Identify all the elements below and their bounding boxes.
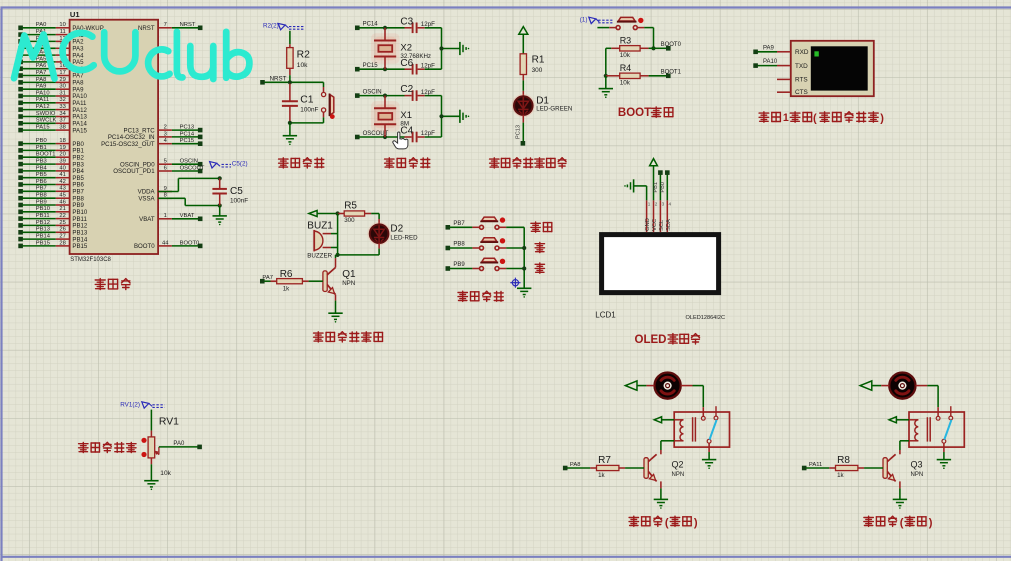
svg-text:22: 22	[59, 213, 65, 219]
svg-text:PB0: PB0	[660, 182, 666, 193]
wire D1 to PC13 / net PC13	[516, 115, 526, 146]
svg-text:R2: R2	[297, 50, 311, 61]
svg-text:PA10: PA10	[763, 59, 778, 65]
pin GND (OLED)	[645, 200, 651, 232]
svg-text:PB3: PB3	[36, 159, 47, 165]
svg-text:PB15: PB15	[36, 240, 50, 246]
svg-text:LED-RED: LED-RED	[390, 234, 418, 241]
svg-text:NRST: NRST	[270, 75, 287, 82]
svg-text:OSCIN: OSCIN	[180, 159, 198, 165]
pin 4 / PC15-OSC32_OUT (right)	[101, 138, 202, 148]
svg-text:300: 300	[344, 217, 355, 224]
pin 39 / net PB3 (left)	[18, 159, 84, 169]
svg-text:BOOT: BOOT	[618, 107, 651, 119]
wire R2 top	[289, 31, 291, 45]
resistor R5	[338, 201, 372, 224]
svg-text:1: 1	[783, 112, 789, 124]
svg-text:100nF: 100nF	[300, 107, 318, 114]
svg-text:R7: R7	[598, 455, 611, 466]
svg-text:X1: X1	[400, 110, 412, 121]
svg-text:RV1: RV1	[159, 417, 179, 428]
svg-text:OSCOUT_PD1: OSCOUT_PD1	[113, 168, 155, 175]
svg-text:31: 31	[59, 90, 65, 96]
label STM32F103C8	[70, 257, 111, 263]
svg-text:R5: R5	[344, 201, 357, 212]
label OLED12864I2C	[686, 315, 726, 321]
pin 40 / net PB4 (left)	[18, 165, 84, 175]
relay purifier	[909, 406, 964, 447]
svg-text:OSCIN: OSCIN	[363, 89, 382, 95]
svg-text:PB7: PB7	[36, 186, 47, 192]
wire RV1 wiper / net PA0	[159, 441, 202, 449]
svg-text:PC15-OSC32_OUT: PC15-OSC32_OUT	[101, 141, 155, 148]
wire Q3 emitter	[899, 481, 901, 499]
svg-text:RXD: RXD	[795, 49, 809, 56]
wire relay common to ground	[943, 443, 945, 459]
callout C5(2)	[210, 160, 248, 168]
svg-text:PC15: PC15	[180, 138, 195, 144]
svg-text:Q3: Q3	[911, 459, 923, 469]
label main chip (Chinese)	[95, 279, 130, 290]
buzzer BUZ1	[307, 220, 337, 259]
pin 16 / net PA6 (left)	[18, 63, 84, 73]
svg-text:C1: C1	[300, 94, 314, 105]
svg-text:C5: C5	[230, 186, 243, 197]
label plus (Chinese)	[535, 242, 544, 252]
label OLED display (Chinese)	[635, 334, 700, 346]
pin SDA (OLED)	[666, 200, 672, 232]
node C5 bottom junction	[218, 203, 222, 207]
pin 14 / net PA4 (left)	[18, 50, 84, 60]
wire OSCIN row	[359, 94, 404, 98]
svg-text:): )	[694, 517, 698, 529]
svg-text:PB12: PB12	[36, 220, 50, 226]
svg-text:34: 34	[59, 111, 66, 117]
svg-text:D2: D2	[390, 224, 403, 235]
svg-text:29: 29	[59, 77, 65, 83]
svg-text:18: 18	[59, 138, 65, 144]
pin 13 / net PA3 (left)	[18, 43, 84, 53]
svg-text:OLED: OLED	[635, 334, 667, 346]
svg-text:41: 41	[59, 172, 65, 178]
svg-text:4: 4	[669, 201, 672, 206]
pin 46 / net PB9 (left)	[18, 199, 84, 209]
pin 15 / net PA5 (left)	[18, 56, 84, 66]
wire C1 bottom	[288, 121, 324, 125]
terminal OSCIN	[355, 89, 382, 98]
push button (PB7)	[450, 217, 525, 229]
svg-text:OLED12864I2C: OLED12864I2C	[686, 315, 726, 321]
svg-text:NRST: NRST	[180, 22, 196, 28]
transistor Q1	[323, 268, 356, 295]
resistor R4	[606, 63, 649, 86]
pin 18 / net PB0 (left)	[18, 138, 84, 148]
LED D1	[512, 94, 573, 117]
pin 5 / OSCIN_PD0 (right)	[120, 159, 202, 169]
ground (RV1)	[144, 464, 158, 490]
svg-text:21: 21	[59, 206, 65, 212]
callout R2(2)	[263, 23, 304, 30]
IC U1 STM32F103C8 (MCU)	[70, 20, 159, 254]
ground (crystal)	[460, 42, 469, 55]
pin 25 / net PB12 (left)	[18, 220, 88, 230]
svg-text:1: 1	[648, 201, 651, 206]
pin 8 / VSSA (right)	[138, 193, 172, 203]
svg-text:PB0: PB0	[36, 138, 47, 144]
terminal PA11 / resistor R	[802, 455, 883, 479]
terminal PB1 (SCL)	[653, 170, 662, 200]
label U1	[70, 10, 80, 19]
svg-text:VBAT: VBAT	[180, 213, 195, 219]
wire right rail	[439, 96, 460, 137]
wire Q3 collector	[899, 450, 901, 454]
svg-text:3: 3	[164, 131, 167, 137]
pin CTS stub	[777, 91, 791, 93]
potentiometer RV1	[141, 417, 179, 477]
svg-text:R4: R4	[620, 63, 632, 73]
svg-text:PB10: PB10	[36, 206, 50, 212]
terminal PC14	[355, 22, 378, 31]
svg-text:1k: 1k	[837, 472, 844, 479]
virtual terminal (serial window)	[791, 41, 874, 96]
ground (OLED)	[624, 179, 633, 192]
svg-text:RV1(2): RV1(2)	[120, 402, 140, 409]
svg-text:10: 10	[59, 22, 65, 28]
svg-text:SWCLK: SWCLK	[36, 118, 57, 124]
wire Q2 collector	[660, 450, 662, 454]
ground (relay)	[937, 460, 951, 469]
wire coil to collector	[661, 441, 674, 450]
pin 1 / VBAT (right)	[139, 213, 202, 223]
svg-text:PB15: PB15	[72, 243, 88, 250]
svg-text:LED-GREEN: LED-GREEN	[536, 105, 572, 112]
svg-text:TXD: TXD	[795, 63, 808, 70]
svg-text:12pF: 12pF	[421, 130, 435, 137]
svg-text:PA11: PA11	[36, 97, 49, 103]
svg-text:10k: 10k	[620, 52, 631, 59]
wire R1 to D1	[522, 75, 524, 97]
motor (load)	[655, 373, 681, 399]
svg-text:42: 42	[59, 179, 65, 185]
wire GND to ground	[634, 186, 647, 200]
pin 31 / net PA10 (left)	[18, 90, 87, 100]
label crystal circuit (Chinese)	[385, 158, 430, 168]
svg-text:3: 3	[662, 201, 665, 206]
ground (reset)	[283, 123, 297, 145]
callout RV1(2)	[120, 402, 164, 409]
terminal PA7 / resistor R6	[260, 269, 323, 292]
LED D2	[368, 222, 419, 245]
svg-text:PC14: PC14	[363, 22, 379, 28]
wire D2 bottom	[336, 243, 380, 257]
svg-text:PB9: PB9	[36, 199, 47, 205]
label reset circuit (Chinese)	[279, 158, 324, 168]
svg-text:PA15: PA15	[36, 125, 50, 131]
terminal PC15	[355, 63, 378, 72]
watermark MCUclub	[14, 32, 249, 79]
svg-text:PB13: PB13	[36, 227, 50, 233]
wire BOOT1	[649, 69, 682, 78]
svg-text:LCD1: LCD1	[595, 311, 616, 320]
svg-text:BUZ1: BUZ1	[307, 220, 333, 231]
svg-text:C5(2): C5(2)	[232, 160, 248, 167]
wire right rail	[439, 28, 460, 69]
label program running indicator (Chinese)	[490, 158, 566, 168]
pin 7 / NRST (right)	[138, 22, 202, 32]
svg-text:300: 300	[532, 67, 543, 74]
svg-text:7: 7	[164, 22, 167, 28]
svg-text:X2: X2	[400, 42, 412, 53]
capacitor C5	[212, 178, 248, 205]
svg-text:BOOT1: BOOT1	[661, 69, 682, 75]
svg-text:20: 20	[59, 152, 65, 158]
wire relay common to ground	[708, 443, 710, 459]
pin 20 / net BOOT1 (left)	[18, 152, 84, 162]
svg-text:PA0: PA0	[36, 22, 47, 28]
svg-text:PA12: PA12	[36, 104, 50, 110]
power +V (indicator)	[519, 27, 528, 54]
svg-text:39: 39	[59, 159, 65, 165]
svg-text:VBAT: VBAT	[139, 216, 155, 223]
pin 17 / net PA7 (left)	[18, 70, 84, 80]
svg-text:SWDIO: SWDIO	[36, 111, 56, 117]
capacitor C2	[400, 84, 441, 101]
ground (Q1)	[328, 313, 342, 322]
push button (PB9)	[450, 258, 525, 270]
svg-text:44: 44	[162, 240, 169, 246]
svg-text:19: 19	[59, 145, 65, 151]
svg-text:BUZZER: BUZZER	[307, 252, 332, 259]
label LCD1	[595, 311, 616, 320]
svg-text:6: 6	[164, 165, 167, 171]
pin 30 / net PA9 (left)	[18, 84, 84, 94]
wire PC15 row	[359, 67, 404, 71]
pin 3 / PC14-OSC32_IN (right)	[108, 131, 203, 141]
terminal OSCOUT	[355, 131, 389, 140]
svg-text:PA9: PA9	[763, 45, 775, 51]
terminal PB0 (SDA)	[660, 170, 670, 200]
wire button rail	[522, 227, 526, 288]
relay fan	[674, 406, 729, 447]
wire PC14 row	[359, 26, 404, 30]
svg-text:R3: R3	[620, 36, 632, 46]
svg-text:PA11: PA11	[809, 462, 822, 468]
svg-text:2: 2	[655, 201, 658, 206]
label BOOT circuit	[618, 107, 673, 119]
transistor Q2	[644, 454, 684, 481]
terminal NRST	[260, 75, 286, 84]
pin 2 / PC13_RTC (right)	[124, 125, 203, 135]
power +V (motor)	[625, 381, 654, 390]
svg-text:PB4: PB4	[36, 165, 48, 171]
callout (1)	[580, 17, 613, 24]
push button (BOOT)	[597, 17, 653, 29]
pin 19 / net PB1 (left)	[18, 145, 84, 155]
svg-text:(: (	[900, 517, 904, 529]
label natural gas adjust (Chinese)	[79, 442, 136, 452]
svg-text:40: 40	[59, 165, 65, 171]
svg-text:25: 25	[59, 220, 65, 226]
wire Q2 emitter	[660, 481, 662, 499]
pin 28 / net PB15 (left)	[18, 240, 88, 250]
ground (Q3)	[893, 499, 907, 508]
svg-text:(: (	[813, 112, 817, 124]
svg-text:PB9: PB9	[453, 262, 465, 268]
svg-text:SDA: SDA	[666, 219, 672, 231]
resistor R1	[520, 54, 545, 75]
svg-text:11: 11	[60, 29, 66, 35]
svg-text:12pF: 12pF	[421, 62, 435, 69]
svg-text:PA6: PA6	[36, 63, 47, 69]
resistor R3	[611, 36, 653, 59]
svg-text:(: (	[665, 517, 669, 529]
pin 32 / net PA11 (left)	[18, 97, 87, 107]
svg-text:2: 2	[164, 125, 167, 131]
svg-text:R6: R6	[280, 269, 293, 280]
wire BOOT0 node	[651, 28, 681, 51]
svg-text:PB8: PB8	[36, 193, 47, 199]
svg-text:17: 17	[59, 70, 65, 76]
svg-text:NRST: NRST	[138, 25, 155, 32]
pin RXD / net PA9	[753, 45, 791, 54]
svg-text:1: 1	[164, 213, 167, 219]
svg-text:30: 30	[59, 84, 65, 90]
capacitor C3	[400, 16, 441, 33]
svg-text:PC15: PC15	[363, 63, 379, 69]
terminal PB9	[446, 262, 466, 271]
svg-text:C3: C3	[400, 16, 413, 27]
pin 29 / net PA8 (left)	[18, 77, 84, 87]
svg-text:PB6: PB6	[36, 179, 47, 185]
label minus (Chinese)	[535, 263, 544, 273]
svg-text:R1: R1	[532, 54, 545, 65]
svg-text:PB7: PB7	[453, 221, 465, 227]
wire NRST node	[265, 75, 324, 84]
label independent keys (Chinese)	[458, 291, 503, 301]
power +V (motor)	[860, 381, 889, 390]
pin 34 / net SWDIO (left)	[18, 111, 87, 121]
svg-text:Q2: Q2	[672, 459, 684, 469]
svg-text:Q1: Q1	[342, 269, 356, 280]
capacitor C4	[400, 126, 441, 143]
svg-text:PB14: PB14	[36, 234, 51, 240]
svg-text:38: 38	[59, 125, 65, 131]
svg-text:12pF: 12pF	[421, 89, 435, 96]
label relay (Chinese)	[629, 516, 698, 529]
wire R3-R4 left rail	[604, 48, 612, 78]
label set (Chinese)	[531, 222, 552, 232]
ground (Q2)	[654, 499, 668, 508]
svg-text:OSCOUT: OSCOUT	[180, 165, 205, 171]
svg-text:BOOT0: BOOT0	[180, 240, 200, 246]
pin 33 / net PA12 (left)	[18, 104, 87, 114]
wire RV1 top	[150, 410, 152, 431]
pin 45 / net PB8 (left)	[18, 193, 84, 203]
svg-text:PB5: PB5	[36, 172, 47, 178]
wire VDDA to C5	[158, 178, 220, 191]
svg-text:SCL: SCL	[659, 219, 665, 231]
pin SCL (OLED)	[659, 200, 665, 232]
pin 12 / net PA2 (left)	[18, 36, 84, 46]
svg-text:1k: 1k	[283, 285, 290, 292]
svg-text:PC13: PC13	[516, 125, 522, 139]
mouse cursor (hand)	[393, 132, 408, 149]
svg-text:C2: C2	[400, 84, 413, 95]
wire OSCOUT row	[359, 135, 404, 139]
pin 41 / net PB5 (left)	[18, 172, 84, 182]
svg-text:R2(2): R2(2)	[263, 23, 279, 30]
pin 26 / net PB13 (left)	[18, 227, 88, 237]
power +V (OLED)	[650, 159, 658, 201]
svg-text:PA8: PA8	[36, 77, 47, 83]
svg-text:32: 32	[59, 97, 65, 103]
crystal X2	[371, 28, 431, 69]
svg-text:PA7: PA7	[262, 275, 273, 281]
capacitor C1	[282, 84, 319, 123]
svg-text:1k: 1k	[598, 472, 605, 479]
svg-text:100nF: 100nF	[230, 198, 248, 205]
wire motor to relay contact	[916, 386, 939, 416]
svg-text:PA15: PA15	[72, 127, 87, 134]
terminal PB7	[446, 221, 466, 230]
ground (relay)	[702, 460, 716, 469]
crystal X1	[371, 96, 412, 137]
svg-text:10k: 10k	[620, 79, 631, 86]
ground (crystal)	[460, 110, 469, 123]
svg-text:PB1: PB1	[653, 182, 659, 193]
pin TXD / net PA10	[753, 59, 791, 68]
wire coil to collector	[900, 441, 909, 450]
transistor Q3	[883, 454, 923, 481]
svg-text:26: 26	[59, 227, 65, 233]
display LCD1 (OLED module)	[602, 235, 719, 293]
svg-text:RTS: RTS	[795, 77, 808, 84]
svg-text:PA0: PA0	[173, 441, 185, 447]
push button (reset)	[322, 82, 335, 123]
svg-text:R8: R8	[837, 455, 850, 466]
pin 21 / net PB10 (left)	[18, 206, 88, 216]
pin 10 / net PA0 (left)	[18, 22, 103, 32]
svg-text:): )	[880, 112, 884, 124]
pin 43 / net PB7 (left)	[18, 186, 84, 196]
pin 11 / net PA1 (left)	[18, 29, 84, 39]
pin 22 / net PB11 (left)	[18, 213, 87, 223]
terminal PB8	[446, 242, 466, 251]
push button (PB8)	[450, 238, 525, 250]
svg-text:12pF: 12pF	[421, 21, 435, 28]
svg-text:10k: 10k	[297, 62, 308, 69]
power +V (alarm)	[309, 210, 340, 216]
svg-text:PC14: PC14	[180, 131, 195, 137]
pin 42 / net PB6 (left)	[18, 179, 84, 189]
motor (load)	[889, 373, 915, 399]
svg-text:STM32F103C8: STM32F103C8	[70, 257, 111, 263]
svg-text:BOOT0: BOOT0	[661, 42, 682, 48]
svg-text:CTS: CTS	[795, 89, 808, 96]
svg-text:27: 27	[59, 234, 65, 240]
svg-text:37: 37	[59, 118, 65, 124]
wire alarm rail	[337, 214, 339, 255]
pin 37 / net SWCLK (left)	[18, 118, 87, 128]
ground (BOOT)	[599, 76, 613, 98]
pin 38 / net PA15 (left)	[18, 125, 87, 135]
svg-text:PB1: PB1	[36, 145, 47, 151]
wire Q1 emitter	[335, 295, 337, 313]
svg-text:NPN: NPN	[342, 280, 355, 287]
wire R5 to D2	[371, 214, 379, 225]
svg-text:NPN: NPN	[911, 472, 924, 478]
svg-text:U1: U1	[70, 10, 80, 19]
